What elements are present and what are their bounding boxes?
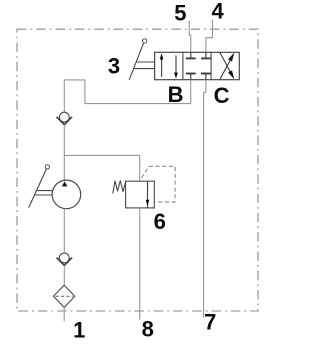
pump P1 flow triangle xyxy=(62,181,68,186)
valve U1 right-cell crossed arrows xyxy=(220,53,234,80)
svg-text:7: 7 xyxy=(204,310,216,335)
wire pump to check valve V2 xyxy=(63,209,65,253)
svg-text:C: C xyxy=(214,83,230,108)
pump lever arm xyxy=(29,169,47,208)
valve U1 center-cell blocked port top-right xyxy=(201,52,211,58)
valve U1 center-cell blocked port top-left xyxy=(186,52,196,58)
wire port C to line 7 xyxy=(204,80,206,318)
svg-text:6: 6 xyxy=(154,209,166,234)
valve U1 left-cell up arrow xyxy=(160,53,164,77)
svg-text:3: 3 xyxy=(108,53,120,78)
wire relief valve to line 8 xyxy=(139,208,141,320)
relief valve 6 body xyxy=(126,181,155,208)
enclosure dash-dot border xyxy=(17,29,258,311)
valve U1 body xyxy=(155,52,240,79)
check valve V2 xyxy=(57,253,73,265)
valve U1 center-cell blocked port bottom-right xyxy=(201,74,211,80)
relief valve 6 flow arrow xyxy=(146,181,150,208)
pump lever knob xyxy=(45,165,49,169)
valve lever 3 knob xyxy=(142,39,146,43)
pump P1 circle xyxy=(52,180,81,209)
svg-text:8: 8 xyxy=(142,316,154,341)
valve lever 3 clevis xyxy=(134,62,155,69)
relief valve 6 pilot line (dashed) xyxy=(142,166,176,202)
svg-text:1: 1 xyxy=(73,317,85,342)
wire port 5 to valve xyxy=(189,21,191,53)
valve lever 3 arm xyxy=(129,43,144,80)
wire junction branch to relief valve xyxy=(64,155,139,181)
wire port B to main line xyxy=(64,80,190,113)
wire check valve V2 to filter xyxy=(63,265,65,285)
valve U1 position divider left xyxy=(182,52,184,79)
svg-text:5: 5 xyxy=(174,1,186,26)
pump lever clevis xyxy=(34,191,52,195)
wire filter to port 1 xyxy=(63,307,65,321)
check valve V1 xyxy=(57,112,73,124)
relief valve 6 spring xyxy=(113,180,126,193)
valve U1 center-cell blocked port bottom-left xyxy=(186,74,196,80)
wire port 4 to valve xyxy=(206,20,213,53)
valve U1 left-cell down arrow xyxy=(174,55,178,78)
svg-text:4: 4 xyxy=(211,0,224,24)
filter F1 xyxy=(54,285,75,307)
wire check valve V1 to pump xyxy=(63,125,65,180)
valve U1 position divider right xyxy=(210,52,212,79)
